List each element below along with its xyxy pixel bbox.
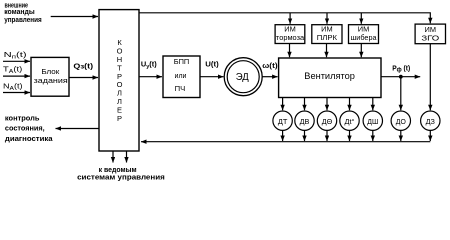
wires: fan bottom to sensors xyxy=(282,98,284,111)
wire: external commands into controller xyxy=(51,16,98,18)
wire: Nп(t) input xyxy=(3,60,30,62)
block: ИМ шибера xyxy=(349,25,379,44)
block: ИМ ПЛРК xyxy=(312,25,342,44)
svg-text:U(t): U(t) xyxy=(205,60,219,69)
wire: Pф(t) fan output xyxy=(381,76,420,78)
block: Вентилятор xyxy=(279,58,381,98)
block: ИМ ЗГО xyxy=(415,24,445,44)
svg-text:Nп(t): Nп(t) xyxy=(4,50,28,61)
svg-text:TА(t): TА(t) xyxy=(3,65,23,76)
svg-text:системам управления: системам управления xyxy=(77,172,165,181)
wire: Uу(t) controller to БПП xyxy=(139,76,162,78)
sensor ДТ xyxy=(273,111,292,130)
svg-text:тормоза: тормоза xyxy=(276,33,305,42)
svg-text:шибера: шибера xyxy=(351,33,378,42)
svg-text:управления: управления xyxy=(4,15,42,24)
block: Блок задания xyxy=(31,57,69,96)
bus drop arrow to ИМ ПЛРК xyxy=(326,13,328,24)
svg-text:ДШ: ДШ xyxy=(367,117,378,126)
wire: ИМ шибера to fan xyxy=(360,44,362,58)
block: КОНТРОЛЛЕР xyxy=(99,10,139,151)
wire: ω(t) ЭД to Вентилятор xyxy=(262,76,277,78)
block: ИМ тормоза xyxy=(275,25,305,44)
wire: U(t) БПП to ЭД xyxy=(200,76,223,78)
sensor ДЗ xyxy=(421,111,440,130)
svg-text:ИМ: ИМ xyxy=(425,25,437,34)
svg-text:ИМ: ИМ xyxy=(284,25,296,34)
wire: контроль состояния диагностика (out of controller, arrow left) xyxy=(56,128,100,130)
svg-text:ПЧ: ПЧ xyxy=(175,84,186,93)
label: внешние команды управления xyxy=(4,0,42,24)
svg-text:задания: задания xyxy=(34,76,68,85)
wire: Nд(t) input xyxy=(3,92,30,94)
wire: Tд(t) input xyxy=(3,75,30,77)
svg-text:ДТ: ДТ xyxy=(278,117,288,126)
motor ЭД (double circle) xyxy=(224,58,262,96)
svg-text:диагностика: диагностика xyxy=(5,134,54,143)
svg-text:ДΘ: ДΘ xyxy=(322,117,333,126)
svg-text:ЭД: ЭД xyxy=(236,72,249,83)
svg-text:ДВ: ДВ xyxy=(300,117,310,126)
bus drop arrow to ИМ тормоза xyxy=(289,13,291,24)
bottom feedback bus into controller xyxy=(141,141,430,143)
sensor ДВ xyxy=(295,111,314,130)
svg-text:контроль: контроль xyxy=(5,113,40,122)
svg-text:Дt°: Дt° xyxy=(345,117,355,126)
sensor ДО xyxy=(391,111,410,130)
svg-text:или: или xyxy=(175,71,187,80)
wire: Qз(t) to controller xyxy=(69,77,98,79)
junction dot on Pф wire xyxy=(399,75,403,79)
label: к ведомым системам управления xyxy=(77,165,165,182)
wire: ИМ ЗГО down to ДЗ sensor xyxy=(429,44,431,111)
svg-text:ДО: ДО xyxy=(396,117,406,126)
svg-text:NА(t): NА(t) xyxy=(3,81,23,92)
svg-text:ПЛРК: ПЛРК xyxy=(317,33,338,42)
top bus wire from controller to ИМ ЗГО xyxy=(139,13,430,23)
label: контроль состояния, диагностика xyxy=(5,113,54,143)
bus drop arrow to ИМ шибера xyxy=(360,13,362,24)
svg-text:ИМ: ИМ xyxy=(358,25,370,34)
wire: ИМ тормоза to fan xyxy=(289,44,291,58)
svg-text:БПП: БПП xyxy=(174,57,190,66)
svg-text:ЗГО: ЗГО xyxy=(421,34,439,43)
block: БПП или ПЧ xyxy=(163,56,200,98)
sensor ДШ xyxy=(363,111,382,130)
svg-text:ω(t): ω(t) xyxy=(262,61,278,70)
wire: ИМ ПЛРК to fan xyxy=(326,44,328,58)
sensor Дt° xyxy=(340,111,359,130)
sensor ДΘ xyxy=(317,111,336,130)
svg-text:ДЗ: ДЗ xyxy=(426,117,436,126)
svg-text:Pф (t): Pф (t) xyxy=(392,63,410,73)
svg-text:Вентилятор: Вентилятор xyxy=(304,71,355,81)
svg-text:ИМ: ИМ xyxy=(321,25,333,34)
svg-text:Р: Р xyxy=(117,114,122,123)
svg-text:Qз(t): Qз(t) xyxy=(73,61,93,70)
svg-text:состояния,: состояния, xyxy=(5,124,45,133)
wires: sensors down to bottom bus xyxy=(282,130,284,141)
wire: Pф junction down to ДО sensor xyxy=(400,77,402,111)
wires: controller bottom outputs to slave systems xyxy=(112,151,114,163)
svg-text:Блок: Блок xyxy=(41,67,60,76)
